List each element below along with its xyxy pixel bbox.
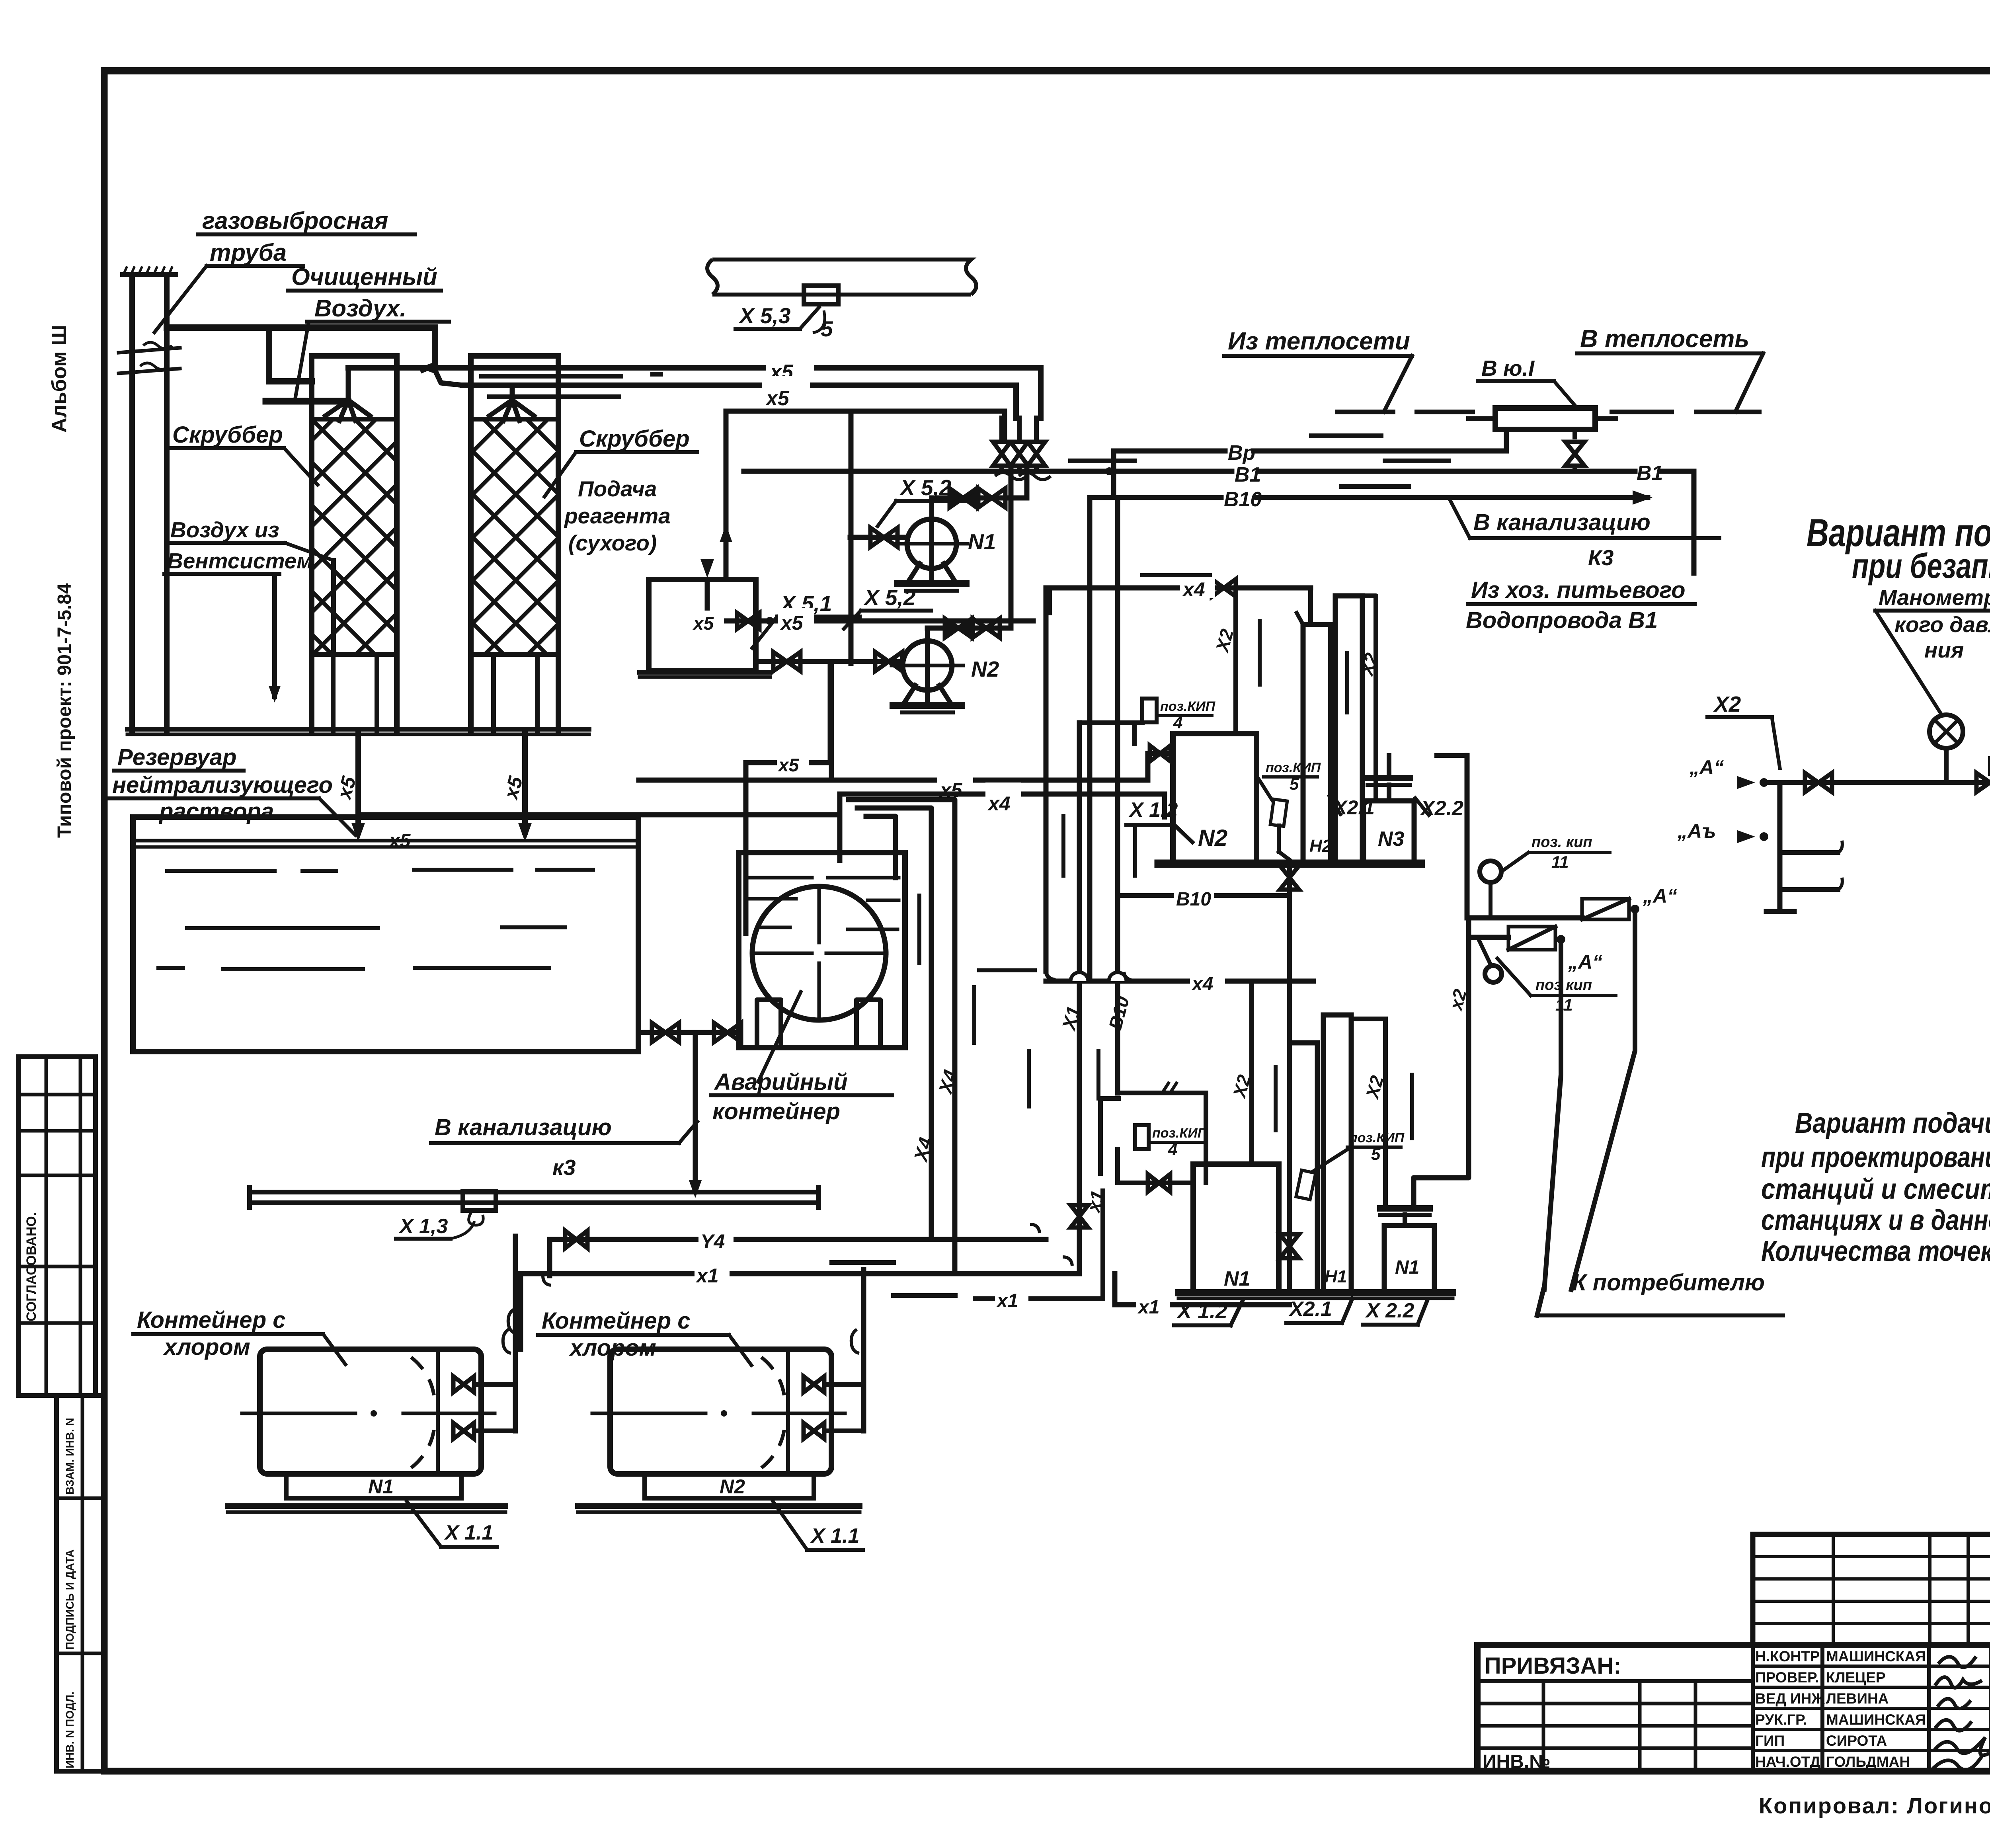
svg-text:Y4: Y4 [700, 1230, 725, 1253]
svg-text:СИРОТА: СИРОТА [1826, 1733, 1887, 1749]
svg-text:МАШИНСКАЯ: МАШИНСКАЯ [1826, 1711, 1926, 1728]
svg-text:реагента: реагента [564, 503, 671, 528]
svg-text:ПРОВЕР.: ПРОВЕР. [1755, 1669, 1819, 1686]
svg-text:поз.КИП: поз.КИП [1349, 1130, 1405, 1145]
svg-text:Вентсистем: Вентсистем [167, 548, 313, 573]
svg-text:Типовой проект: 901-7-5.84: Типовой проект: 901-7-5.84 [54, 583, 75, 838]
svg-text:Х2.2: Х2.2 [1420, 797, 1463, 820]
svg-text:11: 11 [1551, 853, 1569, 871]
svg-text:кого давле-: кого давле- [1894, 612, 1990, 637]
svg-text:В10: В10 [1176, 889, 1211, 910]
svg-text:НАЧ.ОТД: НАЧ.ОТД [1755, 1754, 1820, 1770]
svg-text:ИНВ.№: ИНВ.№ [1483, 1751, 1551, 1772]
svg-text:N2: N2 [720, 1475, 745, 1498]
svg-text:контейнер: контейнер [712, 1099, 840, 1124]
svg-text:N1: N1 [1395, 1257, 1419, 1278]
svg-text:ВЕД ИНЖ: ВЕД ИНЖ [1755, 1690, 1825, 1707]
svg-text:N1: N1 [368, 1475, 394, 1498]
svg-text:Х 1.1: Х 1.1 [810, 1524, 859, 1547]
svg-text:Аварийный: Аварийный [714, 1069, 848, 1095]
svg-text:х4: х4 [987, 792, 1011, 815]
svg-text:Х2: Х2 [1713, 692, 1741, 716]
svg-text:Манометр низ-: Манометр низ- [1879, 585, 1990, 610]
svg-text:„Аъ: „Аъ [1677, 820, 1716, 842]
svg-text:Воздух из: Воздух из [170, 517, 279, 542]
svg-text:ЛЕВИНА: ЛЕВИНА [1826, 1690, 1889, 1707]
svg-text:Водопровода В1: Водопровода В1 [1466, 607, 1658, 633]
svg-text:N2: N2 [971, 657, 999, 681]
svg-text:станций и смесителей воды с хл: станций и смесителей воды с хлором на ка… [1761, 1173, 1990, 1205]
svg-text:ГОЛЬДМАН: ГОЛЬДМАН [1826, 1754, 1910, 1770]
svg-text:Х 1,3: Х 1,3 [398, 1215, 448, 1238]
svg-text:Количества точек ввода определ: Количества точек ввода определяется при … [1761, 1235, 1990, 1267]
svg-text:х5: х5 [692, 613, 714, 634]
svg-text:поз.КИП: поз.КИП [1152, 1126, 1208, 1141]
svg-text:Х 2.2: Х 2.2 [1365, 1299, 1414, 1322]
svg-text:х1: х1 [1137, 1297, 1159, 1318]
svg-text:хлором: хлором [163, 1334, 250, 1360]
svg-text:Из хоз. питьевого: Из хоз. питьевого [1471, 577, 1686, 603]
svg-text:11: 11 [1555, 995, 1573, 1014]
svg-text:В10: В10 [1224, 488, 1262, 511]
svg-text:х5: х5 [777, 755, 800, 775]
svg-text:Х 5,2: Х 5,2 [899, 475, 952, 500]
svg-text:при безаппаратной схеме: при безаппаратной схеме [1852, 546, 1990, 585]
svg-text:„А“: „А“ [1568, 951, 1602, 973]
svg-text:Х 5,2: Х 5,2 [863, 585, 916, 610]
svg-text:при проектировании производств: при проектировании производственных здан… [1761, 1142, 1990, 1173]
svg-text:Вр: Вр [1228, 441, 1255, 464]
svg-text:МАШИНСКАЯ: МАШИНСКАЯ [1826, 1648, 1926, 1665]
svg-text:Н1: Н1 [1325, 1267, 1347, 1286]
svg-text:Подача: Подача [578, 476, 657, 501]
svg-text:Н.КОНТР: Н.КОНТР [1755, 1648, 1820, 1665]
svg-text:В ю.I: В ю.I [1481, 356, 1535, 381]
svg-text:СОГЛАСОВАНО.: СОГЛАСОВАНО. [24, 1212, 39, 1321]
svg-text:раствора: раствора [158, 798, 274, 824]
svg-text:поз.КИП: поз.КИП [1160, 699, 1216, 714]
svg-text:ПРИВЯЗАН:: ПРИВЯЗАН: [1485, 1653, 1621, 1679]
svg-text:х5: х5 [765, 387, 790, 410]
svg-text:В канализацию: В канализацию [1473, 509, 1651, 535]
svg-text:Контейнер с: Контейнер с [137, 1307, 286, 1333]
svg-text:Х 1.1: Х 1.1 [444, 1521, 493, 1544]
svg-text:труба: труба [210, 239, 287, 266]
svg-text:Н2: Н2 [1309, 836, 1332, 856]
svg-text:ПОДПИСЬ И ДАТА: ПОДПИСЬ И ДАТА [64, 1549, 76, 1650]
svg-text:газовыбросная: газовыбросная [202, 207, 388, 234]
svg-text:Х 5,3: Х 5,3 [738, 303, 790, 328]
svg-text:Вариант подачи хлора в точке в: Вариант подачи хлора в точке ввода преду… [1795, 1107, 1990, 1139]
svg-text:Воздух.: Воздух. [314, 295, 406, 322]
svg-text:Контейнер с: Контейнер с [542, 1308, 691, 1334]
svg-text:ИНВ. N ПОДЛ.: ИНВ. N ПОДЛ. [64, 1692, 76, 1768]
svg-text:К3: К3 [1588, 545, 1613, 570]
svg-text:В1: В1 [1637, 462, 1663, 485]
svg-text:Резервуар: Резервуар [117, 744, 236, 770]
svg-text:Альбом Ш: Альбом Ш [48, 325, 71, 433]
svg-text:х4: х4 [1191, 974, 1213, 995]
svg-text:Очищенный: Очищенный [291, 263, 437, 290]
svg-text:поз кип: поз кип [1535, 977, 1592, 993]
svg-text:Из теплосети: Из теплосети [1228, 328, 1410, 355]
svg-text:станциях и в данном проекте не: станциях и в данном проекте не разрабаты… [1761, 1204, 1990, 1236]
svg-text:К потребителю: К потребителю [1572, 1270, 1765, 1296]
svg-text:х5: х5 [388, 830, 411, 851]
svg-text:Х 1.2: Х 1.2 [1128, 798, 1178, 822]
svg-text:„А“: „А“ [1643, 885, 1677, 907]
svg-text:к3: к3 [552, 1155, 576, 1180]
svg-text:N1: N1 [968, 529, 996, 554]
svg-text:Скруббер: Скруббер [579, 426, 690, 452]
svg-text:ГИП: ГИП [1755, 1733, 1785, 1749]
svg-text:нейтрализующего: нейтрализующего [112, 772, 333, 798]
svg-text:ния: ния [1924, 638, 1964, 662]
svg-text:х1: х1 [996, 1290, 1018, 1311]
svg-text:Х2.1: Х2.1 [1288, 1298, 1332, 1321]
svg-text:поз.КИП: поз.КИП [1266, 760, 1321, 775]
svg-text:х4: х4 [1182, 578, 1205, 601]
svg-text:поз. кип: поз. кип [1532, 834, 1592, 851]
svg-text:ВЗАМ. ИНВ. N: ВЗАМ. ИНВ. N [64, 1418, 76, 1495]
svg-text:N3: N3 [1378, 827, 1405, 851]
svg-text:х5: х5 [939, 779, 963, 801]
svg-text:В теплосеть: В теплосеть [1580, 325, 1749, 353]
svg-text:хлором: хлором [569, 1335, 656, 1361]
svg-text:В1: В1 [1235, 463, 1261, 486]
svg-text:(сухого): (сухого) [568, 531, 657, 555]
svg-text:Скруббер: Скруббер [172, 422, 283, 448]
svg-text:КЛЕЦЕР: КЛЕЦЕР [1826, 1669, 1886, 1686]
svg-text:Копировал: Логинова: Копировал: Логинова [1759, 1793, 1990, 1818]
svg-text:х5: х5 [780, 612, 804, 634]
svg-text:„А“: „А“ [1689, 756, 1724, 779]
svg-text:РУК.ГР.: РУК.ГР. [1755, 1711, 1807, 1728]
svg-text:Х2.1: Х2.1 [1333, 796, 1375, 819]
svg-text:х1: х1 [695, 1265, 719, 1287]
svg-text:В канализацию: В канализацию [435, 1114, 612, 1140]
svg-text:N1: N1 [1224, 1267, 1250, 1290]
svg-text:N2: N2 [1198, 825, 1227, 851]
